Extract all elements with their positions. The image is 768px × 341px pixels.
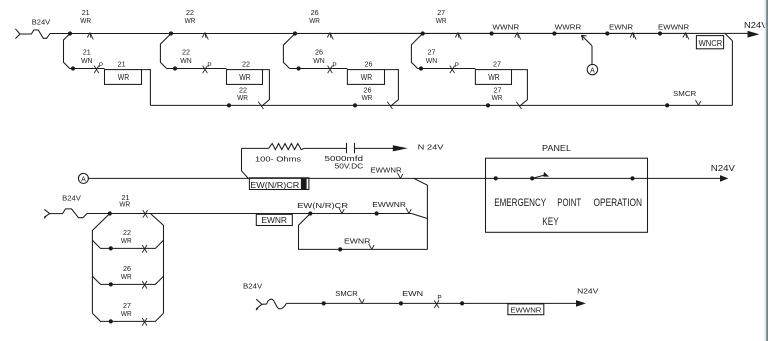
node junction dot (panel left) [494,176,498,180]
capacitor 5000mfd plates [346,143,348,153]
coil box 27 WR [475,70,511,85]
node junction dot (bottom, before SMCR) [322,301,326,305]
contact 21 WN (P type) [94,66,99,74]
svg-text:SMCR: SMCR [335,289,358,298]
wire B24V squiggle (rung B) [50,209,87,218]
contact SMCR (upper rail) [696,100,699,105]
node junction dot (rung B at EW(N/R)CR) [308,211,312,215]
node B24V wire-break chevron (rung B) [44,209,49,213]
node N 24V arrow (resistor branch) [393,145,408,151]
svg-text:A: A [590,68,595,75]
node junction dot (rung B at EWWNR) [375,211,379,215]
svg-text:P: P [437,295,441,302]
svg-text:WN: WN [313,56,324,65]
node junction dot on top rail (WWNR) [490,31,494,35]
coil box 21 WR [105,70,142,85]
svg-text:WR: WR [309,16,320,25]
connector A (middle-left, circle) [78,173,88,183]
svg-text:WR: WR [121,272,132,281]
svg-text:EW(N/R)CR: EW(N/R)CR [297,201,348,210]
svg-text:PANEL: PANEL [542,144,571,153]
coil box WNCR [696,36,723,49]
node junction dot on 21 WN rung [71,66,75,70]
contact 22 WR (ladder) [142,245,147,253]
svg-text:P: P [455,62,459,69]
svg-text:WN: WN [426,56,437,65]
svg-text:N24V: N24V [577,287,598,296]
node junction dot on top rail (cell 27) [421,31,425,35]
svg-text:P: P [99,62,103,69]
switch key blade [532,175,546,179]
contact EWWNR (top rail) [683,33,686,38]
wire rung B horizontal [87,213,411,215]
contact 27 WR (ladder) [142,318,147,326]
wire ladder branch 27 WR [92,313,163,321]
wire resistor branch left segment [242,147,269,149]
wire top rail [50,32,748,34]
wire branch from top rail down to 27 WN rung [411,34,422,69]
node B24V top-left wire-break chevron [15,29,20,34]
svg-text:50V.DC: 50V.DC [335,162,364,171]
contact 21 WR (top rail) [87,33,90,38]
node B24V wire-break chevron (bottom rung) [256,299,262,304]
coil box 26 WR [347,70,384,85]
contact 27 WN (P type) [450,66,455,74]
contact EWNR (branch) [369,244,372,249]
node junction dot on top rail (cell 22) [169,31,173,35]
svg-text:WR: WR [121,309,132,318]
svg-text:N 24V: N 24V [418,142,444,151]
svg-text:WR: WR [361,73,373,82]
svg-text:WR: WR [80,16,91,25]
contact 26 WN (P type) [328,66,333,74]
node junction dot (bottom, after EWN) [460,301,464,305]
wire ladder branch 22 WR [92,240,163,248]
node N24V arrow (bottom rung) [576,300,586,307]
node junction dot (switch pivot) [530,176,534,180]
svg-text:WWRR: WWRR [555,23,582,32]
svg-text:EWNR: EWNR [609,23,634,32]
wire B24V squiggle (top rung feed) [20,30,50,38]
svg-text:EWWNR: EWWNR [658,23,690,32]
svg-text:WR: WR [237,93,248,102]
node junction dot on lower rail [227,103,231,107]
svg-text:WR: WR [436,16,447,25]
wire branch from top rail down to 22 WN rung [160,34,171,69]
contact EWN (P type) [434,300,439,308]
wire rung B to right vertical [411,214,427,219]
wire 27 WN rung [418,68,476,70]
svg-text:EMERGENCY: EMERGENCY [494,197,546,209]
svg-text:EWNR: EWNR [261,216,287,225]
svg-text:WN: WN [180,56,191,65]
node junction dot on top rail (WWRR) [552,31,556,35]
svg-text:WR: WR [492,93,503,102]
wire EWNR parallel branch [299,214,428,250]
wire B24V squiggle (bottom rung) [262,299,287,309]
node junction dot on 27 WN rung [419,66,423,70]
node junction dot on 26 WN rung [297,66,301,70]
svg-text:EWNR: EWNR [344,236,371,245]
contact 22 WR (top rail) [202,33,205,38]
wire ladder branch 26 WR [92,276,163,284]
svg-text:WN: WN [81,56,92,65]
contact EWWNR (rung A) [398,173,401,178]
svg-text:SMCR: SMCR [673,89,697,98]
contact 26 WR (ladder) [142,281,147,289]
svg-text:WR: WR [488,73,500,82]
wire branch from top rail down to 21 WN rung [64,34,71,69]
connector A (top, circle) [587,64,597,74]
coil box EW(N/R)CR with cursor [249,178,309,190]
wire from coil box 21 to lower rail [142,70,151,106]
contact WWNR (top rail) [515,33,518,38]
svg-text:EWN: EWN [402,289,423,298]
svg-text:EWWNR: EWWNR [510,306,542,315]
wire 21 WN rung [70,68,105,70]
wire lower rail (SMCR rail) [150,104,732,106]
svg-text:27: 27 [493,59,501,68]
svg-text:WR: WR [185,16,196,25]
wire between resistor and capacitor [304,147,346,149]
node arrowhead at WWRR contact [582,34,587,37]
svg-text:POINT: POINT [557,197,581,209]
svg-text:P: P [207,62,211,69]
wire top-right corner down to SMCR rail [725,34,732,41]
svg-text:B24V: B24V [243,282,262,291]
node junction dot (panel right) [630,176,634,180]
contact 26 WR (top rail) [327,33,330,38]
node junction dot on top rail (cell 21) [68,31,72,35]
svg-text:100- Ohms: 100- Ohms [255,155,301,164]
svg-text:WR: WR [362,93,373,102]
node N24V top-right arrow [748,31,760,38]
node junction dot (branch 26 WR) [109,282,113,286]
wire drop from rung A to rung B junction [414,178,428,249]
contact SMCR (bottom rung) [359,298,362,303]
svg-text:P: P [332,62,336,69]
svg-text:WNCR: WNCR [699,39,723,48]
wire capacitor to N 24V arrow [355,147,394,149]
svg-text:21: 21 [118,59,126,68]
wire ladder right rail [151,214,164,313]
coil box EWNR (rung B) [256,214,292,225]
wire rung A horizontal [88,177,720,179]
wire from coil box 22 to lower rail [261,70,269,107]
svg-text:WWNR: WWNR [492,23,519,32]
svg-text:WR: WR [239,73,251,82]
contact 27 WR (top rail) [455,33,458,38]
svg-text:OPERATION: OPERATION [594,197,643,209]
svg-text:N24V: N24V [711,164,736,173]
svg-text:WR: WR [121,236,132,245]
node junction dot (EWNR branch) [338,247,342,251]
node junction dot on lower rail [353,103,357,107]
svg-text:EW(N/R)CR: EW(N/R)CR [250,180,299,190]
wire from coil box 27 to lower rail [512,70,528,107]
wire riser to resistor branch [242,148,249,178]
svg-text:B24V: B24V [32,18,51,27]
wire from coil box 26 to lower rail [385,70,399,107]
svg-text:22: 22 [242,59,250,68]
contact EWNR (top rail) [630,33,633,38]
wire ladder left rail [92,214,109,314]
node junction dot (bottom, before EWN) [399,301,403,305]
resistor 100-Ohms [269,144,304,150]
svg-text:EWWNR: EWWNR [370,165,402,174]
coil box 22 WR [227,70,263,85]
node junction dot on 22 WN rung [173,66,177,70]
contact 21 WR (rung B) [143,210,148,218]
wire bottom rung horizontal [286,302,576,304]
node junction dot on top rail (cell 26) [293,31,297,35]
wire diagonal from WWRR contact down to circle A [582,35,593,46]
svg-text:KEY: KEY [542,216,559,228]
svg-text:N24V: N24V [744,20,768,30]
contact 22 WN (P type) [203,66,208,74]
node N24V arrow (panel output) [720,175,728,182]
node junction dot on lower rail [486,103,490,107]
contact EW(N/R)CR (rung B) [339,208,342,213]
node junction dot (rung B left) [108,211,112,215]
wire 22 WN rung [167,68,227,70]
node junction dot (branch 22 WR) [109,246,113,250]
window right edge strip [765,0,767,341]
contact 27 WR (lower rail diagonal) [516,102,521,109]
svg-text:EWWNR: EWWNR [372,200,406,209]
node junction dot on lower rail [665,103,669,107]
panel box [486,158,648,232]
contact EWWNR (rung B) [406,208,409,213]
svg-text:A: A [81,176,86,183]
svg-text:B24V: B24V [62,194,81,203]
contact 26 WR (lower rail diagonal) [387,102,392,109]
svg-text:WR: WR [119,199,130,208]
contact 22 WR (lower rail diagonal) [258,102,263,109]
node junction dot (branch 27 WR) [109,319,113,323]
svg-text:26: 26 [365,59,373,68]
node junction dot on top rail (EWWNR) [658,31,662,35]
wire 26 WN rung [290,68,348,70]
node junction dot on top rail (EWNR) [605,31,609,35]
coil box EWWNR (bottom rung) [508,304,544,315]
wire branch from top rail down to 26 WN rung [283,34,295,69]
svg-text:WR: WR [118,73,130,82]
